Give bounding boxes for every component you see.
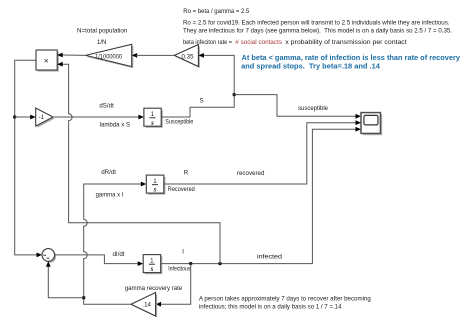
- wire susceptible branch to scope input 1: [234, 95, 361, 119]
- svg-text:1: 1: [151, 111, 155, 118]
- svg-text:Ro = 2.5 for covid19. Each inf: Ro = 2.5 for covid19. Each infected pers…: [183, 19, 450, 26]
- svg-text:s: s: [153, 187, 157, 194]
- svg-text:and spread stops. Try beta=.1: and spread stops. Try beta=.18 and .14: [241, 64, 380, 71]
- wire: product output to sum left input (net lambda*S, vertical x=14.7): [15, 60, 42, 257]
- svg-text:1: 1: [150, 258, 154, 265]
- sum S1 (circle, - -): [42, 249, 56, 267]
- svg-text:infectious; this model is on a: infectious; this model is on a daily bas…: [199, 303, 342, 310]
- wire: gain 0.35 output to gain 1/N input: [136, 54, 174, 56]
- svg-text:infected: infected: [257, 254, 283, 261]
- node junction I net at (190.7,263.6): [189, 262, 192, 265]
- gain -1: [36, 108, 55, 128]
- node junction on lambda*S net at (14.7,117.2): [13, 115, 36, 120]
- svg-text:Susceptible: Susceptible: [165, 119, 193, 126]
- wire S: integrator Susceptible output up to gain 0.35 input: [161, 55, 234, 117]
- svg-text:S: S: [200, 98, 204, 105]
- wire: I feedback to product input 2 (hop at y=117.2): [63, 64, 221, 263]
- svg-text:.14: .14: [142, 302, 151, 309]
- svg-text:1: 1: [153, 178, 157, 185]
- wire: I branch down to gain .14 input: [156, 264, 191, 307]
- svg-text:0.35: 0.35: [181, 53, 194, 60]
- wire: gain .14 output to junction (83.7,297.7): [84, 298, 131, 305]
- wire dS/dt: gain -1 output to integrator Susceptible: [53, 115, 144, 120]
- svg-text:gamma x I: gamma x I: [96, 192, 124, 199]
- svg-text:s: s: [150, 120, 154, 127]
- svg-text:At beta < gamma, rate of infec: At beta < gamma, rate of infection is le…: [242, 55, 461, 62]
- svg-text:s: s: [150, 266, 154, 273]
- node junction gamma*I at (83.7,297.7): [82, 296, 85, 299]
- svg-text:dR/dt: dR/dt: [101, 169, 116, 176]
- integrator Infectious (1/s): [143, 255, 162, 275]
- svg-text:dI/dt: dI/dt: [112, 251, 124, 258]
- svg-text:x probability of transmission: x probability of transmission per contac…: [285, 39, 407, 46]
- svg-text:-1: -1: [39, 114, 45, 121]
- product U1 (X) block: [36, 50, 63, 72]
- svg-text:1/1000000: 1/1000000: [95, 53, 122, 60]
- integrator Recovered (1/s): [146, 175, 165, 195]
- svg-text:1/N: 1/N: [97, 39, 107, 46]
- wire: gamma*I branch to sum bottom input: [48, 267, 83, 298]
- gain beta 0.35: [174, 45, 204, 69]
- wire R: integrator Recovered output to scope input 2: [164, 123, 356, 184]
- wire dR/dt: gamma*I up the x=83.7 vertical into integrator Recovered (hops at 255.1 and 222.8): [84, 182, 147, 298]
- integrator Susceptible (1/s): [144, 108, 163, 128]
- svg-text:gamma recovery rate: gamma recovery rate: [125, 285, 183, 292]
- node junction susceptible net at (234.2,94.6): [233, 93, 236, 96]
- svg-text:R: R: [184, 170, 189, 177]
- svg-text:# social contacts: # social contacts: [235, 39, 282, 46]
- svg-text:susceptible: susceptible: [298, 105, 329, 112]
- svg-text:lambda x S: lambda x S: [100, 121, 130, 128]
- scope block: [356, 113, 383, 136]
- svg-text:N=total population: N=total population: [77, 28, 128, 35]
- wire: gain 1/N output to product input 1: [63, 54, 86, 56]
- wire dI/dt: sum output to integrator Infectious: [55, 255, 144, 266]
- svg-text:I: I: [182, 249, 184, 256]
- svg-text:dS/dt: dS/dt: [99, 102, 114, 109]
- node junction I net at (220,263.6): [218, 262, 221, 265]
- wire I: integrator Infectious output to scope input 3: [161, 129, 356, 263]
- svg-text:×: ×: [44, 55, 49, 65]
- svg-text:They are infectious for 7 days: They are infectious for 7 days (see gamm…: [183, 27, 452, 34]
- svg-text:Ro = beta / gamma = 2.5: Ro = beta / gamma = 2.5: [183, 8, 250, 15]
- svg-text:beta infeciton rate =: beta infeciton rate =: [183, 39, 232, 46]
- svg-text:A person takes approximately 7: A person takes approximately 7 days to r…: [199, 296, 371, 303]
- svg-text:Recovered: Recovered: [168, 186, 195, 193]
- svg-text:Infectious: Infectious: [168, 266, 190, 273]
- gain gamma .14: [131, 293, 157, 318]
- gain 1/N (1/1000000): [86, 44, 138, 68]
- svg-text:recovered: recovered: [237, 170, 265, 177]
